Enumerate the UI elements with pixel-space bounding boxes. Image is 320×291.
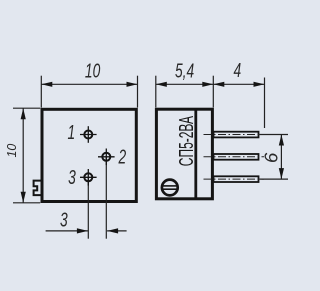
svg-text:10: 10 [5,144,19,158]
svg-text:3: 3 [68,165,76,188]
svg-text:1: 1 [67,121,75,144]
svg-text:4: 4 [233,58,241,81]
svg-text:3: 3 [60,208,68,231]
svg-text:СП5-2ВА: СП5-2ВА [176,116,198,167]
svg-text:6: 6 [261,152,282,163]
svg-text:10: 10 [85,59,101,82]
svg-text:5,4: 5,4 [175,59,194,82]
svg-text:2: 2 [118,145,127,168]
